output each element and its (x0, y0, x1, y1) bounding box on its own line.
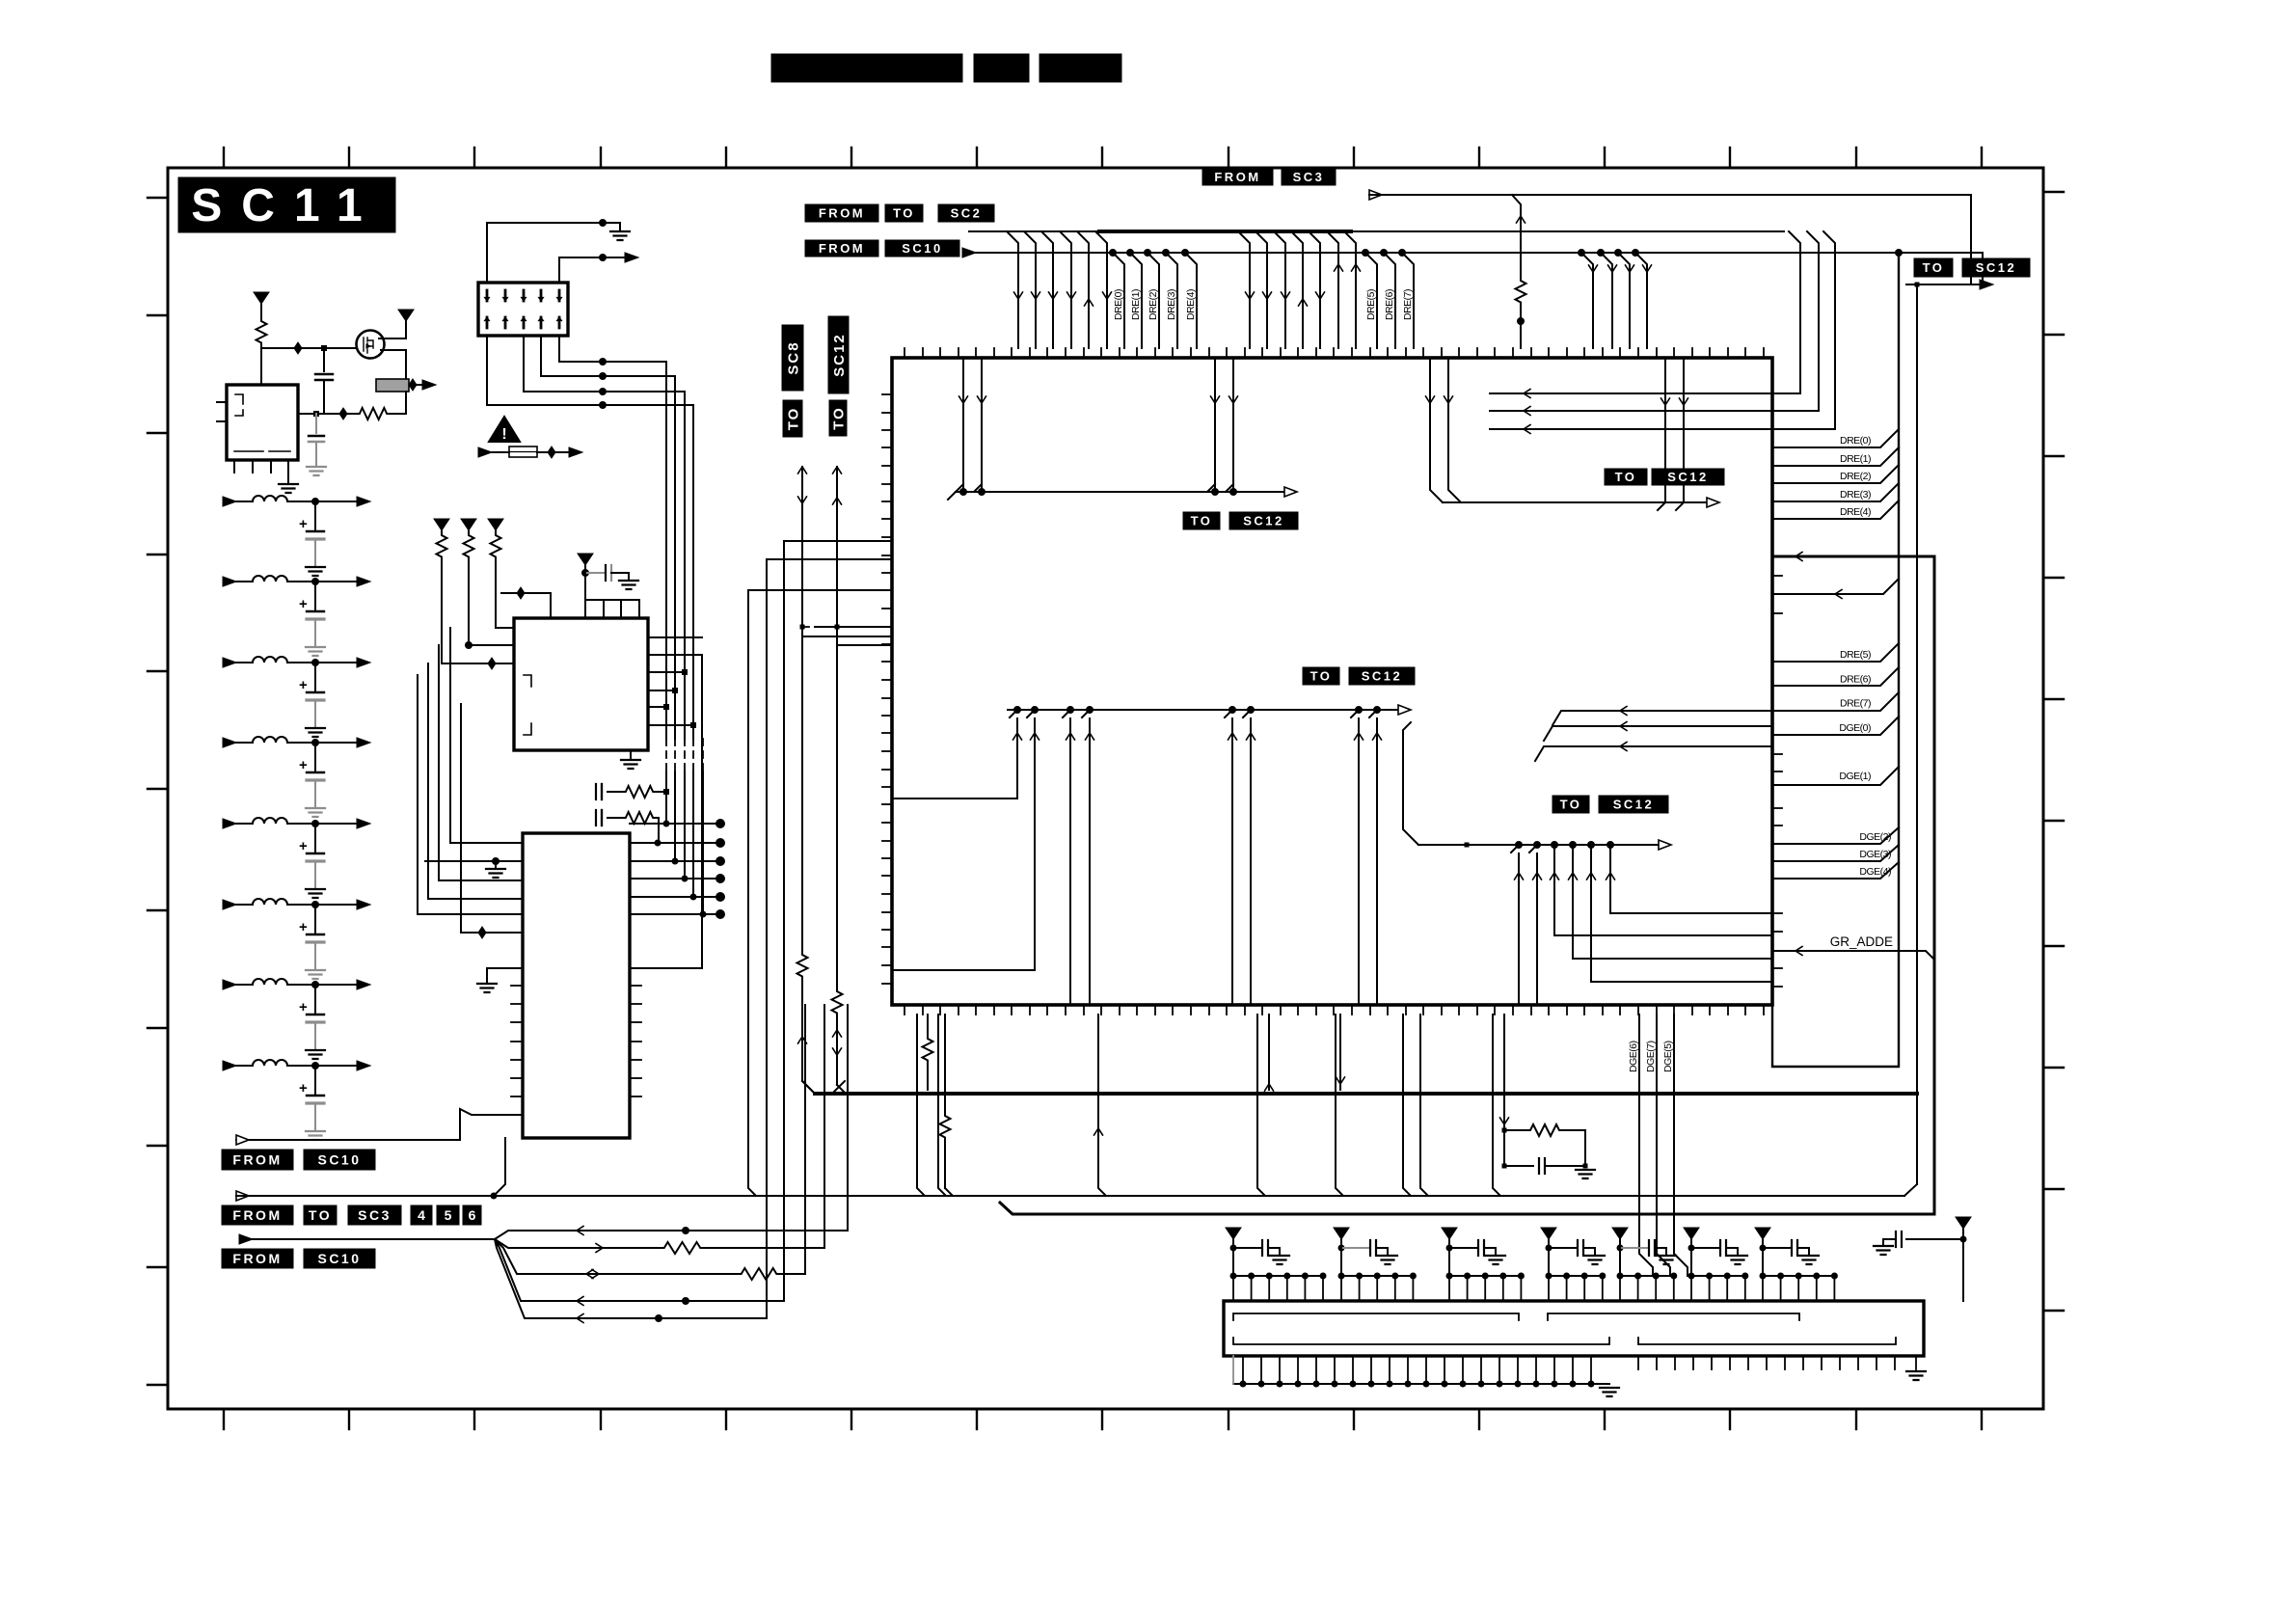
DGE(5)-(7) wires below U4 (1639, 1015, 1653, 1276)
decoupling capacitor bank 3 (1449, 1247, 1476, 1249)
svg-text:DRE(6): DRE(6) (1840, 673, 1871, 685)
label FROM SC10 (bottom 2) (222, 1249, 293, 1268)
svg-text:TO: TO (1615, 470, 1637, 484)
filter row 8: inductor L8 (223, 1061, 236, 1070)
IC U3 (523, 833, 630, 1138)
U3 right pin loop wire (630, 655, 702, 968)
svg-text:DRE(2): DRE(2) (1840, 471, 1871, 482)
svg-text:DGE(6): DGE(6) (1628, 1041, 1639, 1072)
svg-text:+: + (299, 1080, 308, 1096)
decoupling capacitor bank 4 (1549, 1247, 1576, 1249)
capacitor C10 (gray) (315, 414, 317, 433)
node F1 out (409, 379, 417, 391)
label TO SC12 (B) (1303, 667, 1339, 685)
U3 left pin wire with ground (425, 860, 523, 862)
wire Q1 source down (381, 349, 406, 351)
supply triangle V2 (398, 310, 414, 321)
svg-text:!: ! (501, 426, 506, 443)
svg-text:FROM: FROM (232, 1152, 282, 1168)
fan line 3 with resistor R13 (540, 1273, 738, 1275)
wire U1 top to resistor node (260, 348, 262, 385)
transistor Q1 (MOSFET in circle) (357, 331, 385, 359)
electrolytic capacitor C5 (314, 824, 316, 853)
rail and pins bank 4 (1548, 1248, 1550, 1276)
supply triangle V1 (254, 292, 269, 304)
svg-text:SC12: SC12 (1243, 514, 1284, 528)
bus bundle B1 to main IC (1007, 231, 1018, 348)
svg-text:DGE(5): DGE(5) (1662, 1041, 1674, 1072)
U4 right pins (1772, 576, 1782, 987)
svg-text:+: + (299, 677, 308, 693)
ground at J1 net (610, 231, 630, 240)
vertical bus V1 (1772, 253, 1899, 1067)
electrolytic capacitor C6 (314, 905, 316, 934)
svg-text:DRE(5): DRE(5) (1365, 289, 1377, 320)
wire to RC network (1503, 1015, 1505, 1130)
svg-text:TO: TO (830, 406, 847, 430)
internal staircase wires group C (1511, 845, 1519, 1005)
label FROM SC10 (bottom 1) (222, 1150, 293, 1170)
filter row 2 ground (306, 647, 325, 656)
decoupling capacitor bank 5 (1620, 1247, 1647, 1249)
arrow out of F1 (417, 384, 424, 386)
filter row 6 ground (306, 970, 325, 979)
U3 left pin wire to ground 2 (487, 968, 523, 982)
west feeders to TO SC12 line (D) (1430, 358, 1461, 502)
svg-text:TO: TO (785, 407, 801, 431)
filter row 7 output arrow (357, 980, 370, 989)
bold bus lower (815, 1092, 1917, 1096)
svg-text:DRE(0): DRE(0) (1113, 289, 1124, 320)
svg-text:4: 4 (418, 1207, 425, 1223)
label FROM TO SC2 (805, 204, 878, 222)
redaction bar 1 (771, 54, 962, 82)
supply triangle bank 2 (1334, 1228, 1349, 1239)
svg-text:DRE(1): DRE(1) (1130, 289, 1142, 320)
component box (gray) F1 (376, 379, 409, 392)
label TO SC12 (A) (1183, 512, 1220, 529)
filter row 3 output arrow (357, 658, 370, 667)
svg-text:DRE(3): DRE(3) (1840, 489, 1871, 501)
vertical net TO SC8 with arrow (782, 325, 803, 391)
svg-text:FROM: FROM (1214, 170, 1260, 184)
U1 left pins (217, 401, 227, 403)
DGE(1) wire (1772, 767, 1899, 785)
supply triangle bank 6 (1684, 1228, 1699, 1239)
svg-text:DGE(2): DGE(2) (1859, 831, 1891, 843)
bus bundle DRE(5)-DRE(7) (1363, 250, 1369, 257)
bus FROM TO SC2 (969, 230, 1099, 232)
svg-text:TO: TO (309, 1207, 332, 1223)
svg-text:SC12: SC12 (831, 333, 848, 377)
rail ground (1600, 1388, 1619, 1396)
electrolytic capacitor C8 (314, 1066, 316, 1095)
J2 lower pin stubs right (1637, 1356, 1639, 1369)
wire FROM SC3 run (1369, 190, 1382, 200)
DRE(5)-DGE(0) output wires (1772, 643, 1899, 662)
fan line 2 with resistor R12 (540, 1247, 661, 1249)
rail and pins bank 1 (1232, 1248, 1234, 1276)
filter row 4: inductor L4 (223, 738, 236, 747)
wire U1 output (298, 413, 357, 415)
filter row 6 node (312, 902, 319, 908)
wire R2 to Q1 source (390, 413, 406, 415)
filter row 2 node (312, 579, 319, 585)
redaction bar 3 (1039, 54, 1121, 82)
svg-text:SC12: SC12 (1667, 470, 1709, 484)
filter row 1 ground (306, 567, 325, 576)
filter row 7 node (312, 982, 319, 988)
svg-text:TO: TO (893, 206, 915, 221)
svg-text:5: 5 (445, 1207, 452, 1223)
filter row 5 output arrow (357, 819, 370, 828)
svg-text:TO: TO (1560, 798, 1582, 812)
wire J1 pin10 bus0 (559, 336, 666, 362)
capacitor far right (1906, 1238, 1963, 1240)
filter row 7: inductor L7 (223, 980, 236, 989)
svg-text:TO: TO (1923, 260, 1945, 275)
supply triangle bank 7 (1755, 1228, 1770, 1239)
label TO SC12 (C) (1552, 796, 1589, 813)
label TO SC12 (D) (1605, 469, 1647, 485)
U4 bottom pins (904, 1005, 1764, 1015)
filter row 5 ground (306, 889, 325, 898)
rail and pins bank 7 (1762, 1248, 1764, 1276)
U3 left pin stubs (511, 986, 523, 1096)
svg-text:SC2: SC2 (951, 206, 983, 221)
filter row 7 ground (306, 1050, 325, 1059)
arrow TO SC12 (top right) (1906, 284, 1981, 285)
label FROM SC10 (805, 240, 878, 257)
bus wire to fan (239, 1234, 253, 1244)
electrolytic capacitor C4 (314, 743, 316, 771)
resistor R6 (797, 952, 808, 981)
svg-text:DRE(4): DRE(4) (1185, 289, 1197, 320)
decoupling capacitor bank 6 (1691, 1247, 1718, 1249)
svg-text:DGE(7): DGE(7) (1645, 1041, 1657, 1072)
node R1 bottom (260, 347, 262, 349)
resistor R8 (1516, 278, 1526, 307)
J2 inner slot lines (1233, 1313, 1799, 1320)
warning triangle (489, 417, 520, 442)
rail and pins bank 5 (1619, 1248, 1621, 1276)
filter row 8 node (312, 1063, 319, 1069)
rail and pins bank 3 (1448, 1248, 1450, 1276)
supply triangle V3 for U2 (578, 554, 593, 565)
filter row 3: inductor L3 (223, 658, 236, 667)
rail and pins bank 2 (1340, 1248, 1342, 1276)
filter row 3 ground (306, 728, 325, 737)
svg-text:+: + (299, 596, 308, 612)
filter row 6 output arrow (357, 900, 370, 909)
filter row 2: inductor L2 (223, 577, 236, 586)
svg-text:DRE(7): DRE(7) (1840, 698, 1871, 710)
svg-text:SC3: SC3 (358, 1207, 391, 1223)
svg-text:SC12: SC12 (1362, 669, 1403, 684)
wire R4 to U2 (469, 561, 514, 645)
filter row 6: inductor L6 (223, 900, 236, 909)
svg-text:SC10: SC10 (902, 241, 943, 256)
frame tick marks (148, 148, 2064, 1429)
ground right section (1915, 1356, 1917, 1369)
decoupling capacitor bank 7 (1763, 1247, 1790, 1249)
svg-text:DGE(1): DGE(1) (1839, 771, 1871, 782)
svg-text:GR_ADDE: GR_ADDE (1830, 934, 1893, 949)
fan line 4 (540, 1300, 784, 1302)
J2 lower pins with rail (1242, 1356, 1244, 1384)
U3 left nested wires (450, 628, 523, 843)
label FROM SC3 (1202, 169, 1273, 185)
filter row 8 ground (306, 1131, 325, 1140)
arrow wire into U4 (right, A) (1772, 579, 1899, 594)
arrow bus TO SC12 (A) (948, 492, 1284, 500)
resistor R7 (832, 988, 843, 1017)
svg-text:+: + (299, 757, 308, 773)
resistor R2 (357, 408, 390, 420)
bus bundle DRE(0)-DRE(4) (1110, 250, 1117, 257)
svg-text:DRE(6): DRE(6) (1384, 289, 1395, 320)
series RC to node A (595, 784, 597, 799)
vertical wires U4 bottom to bus (917, 1015, 925, 1196)
wires into main IC left pins (802, 627, 892, 645)
internal wires to TO SC12 bus A (962, 358, 964, 492)
decoupling capacitor bank 1 (1233, 1247, 1260, 1249)
bus bundle B7 into main IC right side (1490, 231, 1800, 393)
svg-text:DRE(2): DRE(2) (1147, 289, 1159, 320)
IC U4 (main module) (892, 358, 1772, 1005)
svg-text:DGE(4): DGE(4) (1859, 866, 1891, 878)
svg-text:DRE(0): DRE(0) (1840, 435, 1871, 447)
svg-text:FROM: FROM (819, 206, 865, 221)
border frame (168, 168, 2043, 1409)
vertical net TO SC12 with arrow (828, 316, 849, 393)
wire with resistor R10 below U4 (944, 1015, 946, 1113)
wire R5 to U2 (496, 561, 514, 628)
fan line 5 (540, 1317, 767, 1319)
svg-text:DGE(3): DGE(3) (1859, 849, 1891, 860)
decoupling capacitor C11 (585, 572, 604, 574)
bus bundle B6 to main IC (1579, 250, 1585, 257)
filter row 2 output arrow (357, 577, 370, 586)
svg-text:SC12: SC12 (1613, 798, 1655, 812)
GR_ADDE wire (1772, 951, 1934, 960)
supply triangle bank 4 (1541, 1228, 1556, 1239)
internal arrow wires (left-pointing) (1552, 711, 1772, 725)
filter row 5: inductor L5 (223, 819, 236, 828)
bold bus V3 (GR return) (1000, 556, 1934, 1214)
filter row 8 output arrow (357, 1061, 370, 1070)
filter row 1 output arrow (357, 497, 370, 506)
wire J1 pin2 bus3 (487, 336, 693, 405)
resistor R1 (256, 318, 267, 347)
label TO SC12 (top right) (1914, 258, 1953, 277)
wire J1 pin8 bus1 (541, 336, 675, 376)
supply triangle bank 5 (1612, 1228, 1628, 1239)
arrow bus TO SC12 (C) (1403, 722, 1418, 845)
fuse F2 (478, 447, 492, 457)
filter row 3 node (312, 660, 319, 666)
svg-text:DRE(1): DRE(1) (1840, 453, 1871, 465)
U4 top pins (904, 348, 1764, 358)
svg-text:SC3: SC3 (1293, 170, 1325, 184)
U3 right pin stubs (630, 986, 641, 1096)
bus wires continue below (666, 771, 703, 914)
U4 left pins (882, 394, 892, 984)
fan wires (495, 1231, 540, 1318)
filter row 4 node (312, 740, 319, 746)
supply triangle far right (1956, 1217, 1971, 1229)
svg-text:DRE(3): DRE(3) (1166, 289, 1177, 320)
nested wire L3 to main IC (748, 590, 892, 1196)
electrolytic capacitor C1 (314, 501, 316, 530)
wire with resistor R9 below U4 (927, 1015, 929, 1036)
IC U2 (514, 618, 648, 750)
svg-text:DRE(5): DRE(5) (1840, 649, 1871, 661)
svg-text:+: + (299, 999, 308, 1015)
wire J1 pin9 output arrow (559, 257, 629, 283)
bus wires J1-to-lower area (666, 362, 693, 739)
decoupling capacitor bank 2 (1341, 1247, 1368, 1249)
supply triangle bank 1 (1226, 1228, 1241, 1239)
DRE(0)-DRE(4) output wires (1772, 429, 1899, 447)
vertical bus V2 to TO SC12 top (1916, 284, 1918, 1184)
wire J1 pin6 bus2 (524, 336, 685, 392)
svg-text:FROM: FROM (232, 1207, 282, 1223)
svg-text:+: + (299, 919, 308, 935)
wire J1 pin1 to ground net (487, 223, 620, 283)
IC U1 (regulator) (227, 385, 298, 460)
svg-text:TO: TO (1310, 669, 1333, 684)
wire R1 to Q1 (261, 347, 357, 349)
DGE(2)-DGE(4) wires (1772, 827, 1899, 844)
rail and pins bank 6 (1690, 1248, 1692, 1276)
svg-text:DRE(7): DRE(7) (1402, 289, 1414, 320)
U2 bottom pin ground (630, 750, 632, 758)
vertical feeders to TO SC12 label (D) (1664, 358, 1666, 502)
U3 right pin wires to junction dots (630, 823, 720, 825)
dashed wire segments (666, 739, 703, 771)
wire Q1 drain to V2 (379, 338, 406, 339)
U2 right pins to vertical bus (648, 637, 702, 725)
capacitor C9 (323, 348, 325, 371)
electrolytic capacitor C3 (314, 663, 316, 691)
nested wire L1 to main IC (784, 541, 892, 1301)
title box SC11 (178, 177, 395, 232)
filter row 4 ground (306, 808, 325, 817)
wire from FROM SC10 into U3 (236, 1109, 523, 1140)
series RC to node B (595, 810, 597, 826)
bus FROM SC10 (962, 248, 976, 257)
svg-text:TO: TO (1191, 514, 1213, 528)
main lower bus wire (236, 1191, 249, 1201)
C10 ground (307, 467, 326, 475)
arrow bus TO SC12 (B) (1008, 709, 1398, 711)
svg-text:SC10: SC10 (317, 1152, 361, 1168)
svg-text:SC12: SC12 (1976, 260, 2017, 275)
U1 ground (279, 484, 298, 493)
filter row 5 node (312, 821, 319, 827)
electrolytic capacitor C7 (314, 985, 316, 1014)
svg-text:SC8: SC8 (785, 340, 801, 374)
connector J1 (2x5 header) (478, 283, 568, 336)
svg-text:FROM: FROM (232, 1251, 282, 1266)
arrow bus TO SC12 (D) (1443, 501, 1707, 503)
filter row 4 output arrow (357, 738, 370, 747)
U3 bottom-left pin to bus (494, 1138, 505, 1196)
supply triangle bank 3 (1442, 1228, 1457, 1239)
svg-text:SC11: SC11 (191, 180, 381, 231)
U2 top pins (585, 573, 639, 618)
svg-text:+: + (299, 838, 308, 854)
dashed tie wire (802, 626, 837, 628)
label FROM TO SC3 4 5 6 (222, 1205, 293, 1225)
nested wire L2 to main IC (767, 559, 892, 1318)
bus bundle B3 to main IC (1238, 231, 1250, 348)
wire R3 to U2 (442, 561, 514, 663)
svg-text:DRE(4): DRE(4) (1840, 506, 1871, 518)
connector J2 housing (1224, 1301, 1924, 1356)
U1 bottom pins (233, 460, 235, 473)
pullup resistors R3 R4 R5 with supply triangles (434, 519, 449, 530)
internal riser wires group B (892, 710, 1017, 798)
filter row 1: inductor L1 (223, 497, 236, 506)
electrolytic capacitor C2 (314, 582, 316, 610)
svg-text:DGE(0): DGE(0) (1839, 722, 1871, 734)
U2 pin to node (501, 593, 551, 618)
svg-text:FROM: FROM (819, 241, 865, 256)
mid verticals to bottom fan (805, 1005, 848, 1274)
svg-text:6: 6 (469, 1207, 476, 1223)
svg-text:SC10: SC10 (317, 1251, 361, 1266)
RC network R11 C12 (1502, 1128, 1506, 1132)
svg-text:+: + (299, 516, 308, 532)
filter row 1 node (312, 499, 319, 505)
redaction bar 2 (974, 54, 1029, 82)
fan line 1 (540, 1230, 848, 1232)
